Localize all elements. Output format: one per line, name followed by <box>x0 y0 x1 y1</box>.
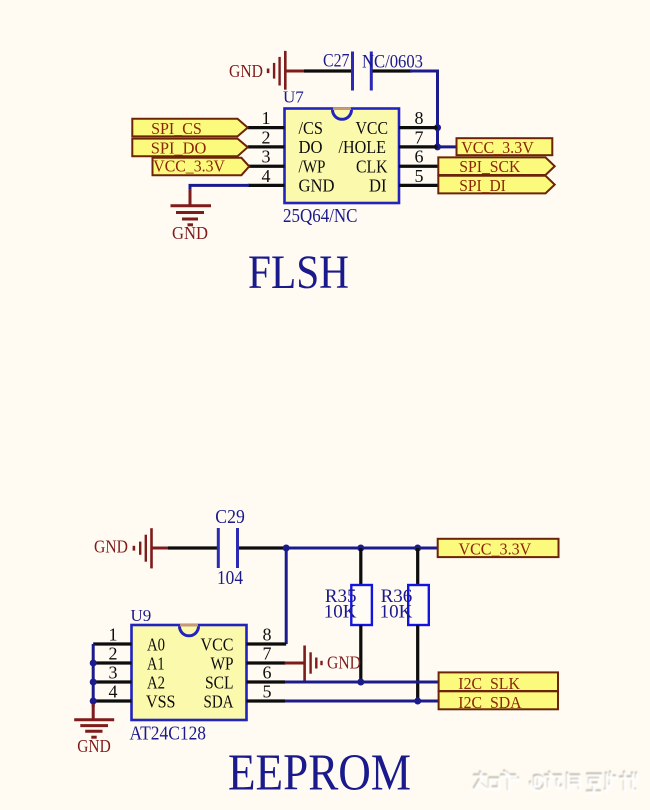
node junction pin3 <box>90 679 97 686</box>
svg-text:4: 4 <box>262 166 271 186</box>
wire (navy left bus down) <box>92 644 95 707</box>
pin 6 wire <box>399 165 438 168</box>
svg-text:SCL: SCL <box>205 672 234 692</box>
node junction pin7 <box>434 143 441 150</box>
svg-text:SPI_DI: SPI_DI <box>459 176 506 195</box>
wire (black from C27 right plate) <box>373 69 413 72</box>
svg-text:CLK: CLK <box>356 157 388 177</box>
capacitor C29 <box>215 506 245 589</box>
U9 pin 5 wire <box>247 699 286 702</box>
pin 1 wire <box>248 126 285 129</box>
svg-text:EEPROM: EEPROM <box>228 745 411 802</box>
svg-text:3: 3 <box>109 662 118 682</box>
svg-text:/WP: /WP <box>299 157 326 177</box>
svg-text:10K: 10K <box>380 602 413 623</box>
power port VCC_3.3V (bottom) <box>438 539 559 559</box>
svg-text:VCC_3.3V: VCC_3.3V <box>153 157 225 176</box>
svg-text:VCC_3.3V: VCC_3.3V <box>461 138 534 157</box>
svg-text:3: 3 <box>262 147 271 167</box>
svg-text:DO: DO <box>299 137 323 157</box>
wire (red stub from ground) <box>285 70 306 73</box>
pin 4 wire <box>248 184 285 187</box>
node junction (R35 bottom) <box>357 679 364 686</box>
svg-text:4: 4 <box>109 681 118 701</box>
svg-text:5: 5 <box>415 166 424 186</box>
svg-text:A2: A2 <box>147 672 165 692</box>
svg-text:U9: U9 <box>131 606 152 625</box>
svg-text:WP: WP <box>211 653 234 673</box>
pin 3 wire <box>248 165 285 168</box>
node junction pin2 <box>90 660 97 667</box>
pin 2 wire <box>248 145 285 148</box>
svg-text:SPI_CS: SPI_CS <box>151 119 202 138</box>
U9 pin numbers <box>109 624 272 701</box>
resistor R36 <box>380 548 429 701</box>
svg-text:C29: C29 <box>215 506 245 528</box>
svg-text:8: 8 <box>263 624 272 644</box>
svg-text:GND: GND <box>77 736 111 756</box>
svg-text:6: 6 <box>415 147 424 167</box>
svg-text:GND: GND <box>94 537 128 557</box>
U9 pin 6 wire <box>247 680 286 683</box>
svg-text:A0: A0 <box>147 634 165 654</box>
wire (black to C27 left plate) <box>304 69 351 72</box>
svg-text:VCC: VCC <box>201 634 234 654</box>
port I2C_SDA <box>439 691 558 712</box>
svg-text:1: 1 <box>109 624 118 644</box>
svg-text:A1: A1 <box>147 653 165 673</box>
U9 pin 1 wire <box>93 642 131 645</box>
wire (navy VCC rail) <box>286 547 438 550</box>
svg-text:2: 2 <box>109 643 118 663</box>
svg-text:FLSH: FLSH <box>248 246 349 299</box>
pin 7 wire <box>399 145 438 148</box>
port VCC_3.3V (left) <box>153 157 250 176</box>
chip U9 body <box>130 606 247 745</box>
port SPI_CS <box>132 119 247 138</box>
svg-text:VSS: VSS <box>146 691 176 711</box>
power port VCC_3.3V (right) <box>438 138 553 157</box>
resistor R35 <box>324 548 372 682</box>
svg-text:1: 1 <box>262 108 271 128</box>
svg-text:SDA: SDA <box>204 691 234 711</box>
node junction pin4 <box>90 698 97 705</box>
svg-text:GND: GND <box>299 176 335 196</box>
wire (red stub to WP ground) <box>285 662 304 665</box>
capacitor C27 <box>323 51 423 91</box>
svg-text:AT24C128: AT24C128 <box>130 724 207 745</box>
svg-text:I2C_SDA: I2C_SDA <box>458 693 522 712</box>
node junction pin8 <box>434 124 441 131</box>
svg-text:/CS: /CS <box>299 118 324 138</box>
svg-text:25Q64/NC: 25Q64/NC <box>283 206 358 227</box>
svg-text:5: 5 <box>263 681 272 701</box>
wire (red stub) <box>152 547 170 550</box>
node junction (U9 pin8 riser) <box>283 545 290 552</box>
svg-text:7: 7 <box>415 127 424 147</box>
U9 pin 7 wire <box>247 661 286 664</box>
U9 pin 3 wire <box>93 680 131 683</box>
svg-text:2: 2 <box>262 127 271 147</box>
node junction (R35 top) <box>357 545 364 552</box>
port SPI_DI <box>438 176 554 195</box>
wire (navy SDA to I2C_SDA) <box>285 700 439 703</box>
power ground GND (top left, sideways bars) <box>229 51 287 90</box>
U9 pin 8 wire <box>247 642 287 645</box>
wire (navy corner to pins 8/7) <box>410 71 438 147</box>
svg-text:GND: GND <box>229 61 263 81</box>
U9 pin 4 wire <box>93 699 131 702</box>
wire (black to C29) <box>168 546 217 549</box>
svg-text:GND: GND <box>172 223 208 243</box>
wire (navy riser U9 pin8 to rail) <box>285 548 288 644</box>
wire (black from C29 right) <box>239 546 286 549</box>
svg-text:GND: GND <box>327 653 361 673</box>
svg-text:7: 7 <box>263 643 272 663</box>
ground GND (below pin 4, earth bars) <box>171 189 212 243</box>
svg-text:/HOLE: /HOLE <box>339 137 387 157</box>
power ground GND (right of pin 7, sideways bars) <box>303 646 361 681</box>
node junction (R36 bottom) <box>414 698 421 705</box>
pin 5 wire <box>399 184 438 187</box>
U7 pin labels <box>299 118 389 196</box>
svg-text:I2C_SLK: I2C_SLK <box>458 674 520 693</box>
svg-text:VCC: VCC <box>356 118 389 138</box>
svg-text:SPI_SCK: SPI_SCK <box>459 157 521 176</box>
wire (navy SCL to I2C_SLK) <box>285 681 439 684</box>
pin 8 wire <box>399 126 438 129</box>
port SPI_DO <box>132 139 247 158</box>
U9 pin 2 wire <box>93 661 131 664</box>
ground GND (bottom left, earth bars) <box>74 704 114 756</box>
chip U7 body <box>283 88 399 228</box>
port SPI_SCK <box>438 157 554 176</box>
U9 pin labels <box>146 634 234 711</box>
svg-text:VCC_3.3V: VCC_3.3V <box>459 539 532 558</box>
node junction (R36 top) <box>414 545 421 552</box>
svg-text:10K: 10K <box>324 602 357 623</box>
wire (navy from pin4 down to ground) <box>190 185 249 192</box>
svg-text:SPI_DO: SPI_DO <box>151 139 207 158</box>
svg-text:C27: C27 <box>323 51 350 72</box>
svg-text:104: 104 <box>217 567 243 589</box>
port I2C_SLK <box>439 672 558 693</box>
U7 pin numbers <box>262 108 424 186</box>
svg-text:6: 6 <box>263 662 272 682</box>
svg-text:DI: DI <box>369 176 387 196</box>
power ground GND (left of C29, sideways bars) <box>94 528 153 568</box>
svg-text:U7: U7 <box>283 88 304 107</box>
svg-text:8: 8 <box>415 108 424 128</box>
svg-text:NC/0603: NC/0603 <box>362 52 423 73</box>
